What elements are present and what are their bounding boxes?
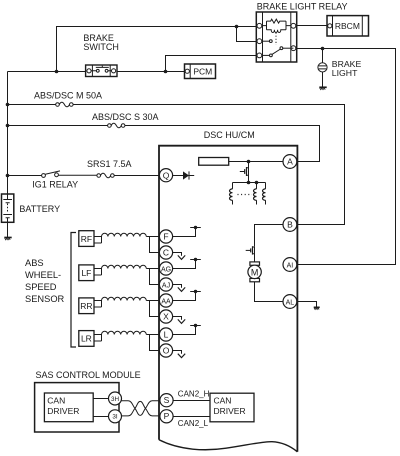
fuse SRS1 7.5A [97, 173, 114, 178]
svg-text:AJ: AJ [162, 282, 170, 289]
relay pin: right terminal 1 [291, 23, 296, 28]
svg-text:ABS: ABS [25, 258, 44, 268]
svg-text:SPEED: SPEED [25, 282, 57, 292]
svg-text:PCM: PCM [193, 66, 212, 76]
svg-text:C: C [163, 248, 169, 258]
motor M (ABS pump motor) [248, 262, 261, 282]
sensor LR (left rear wheel speed) [79, 331, 94, 347]
module SAS control module box [35, 383, 119, 432]
wire: LF twisted pair to AG and AJ [94, 265, 160, 284]
wire: AA internal tick [173, 290, 201, 301]
node: junction at MOSFET drain [247, 160, 251, 164]
module RBCM [327, 16, 369, 36]
node: junction bus / S30A fuse line [6, 124, 10, 128]
solenoid coil 2 [254, 183, 257, 205]
terminal P [160, 410, 173, 423]
node: junction to relay terminal 3 [164, 70, 168, 74]
svg-text:X: X [163, 312, 169, 322]
wire: CAN driver to 3I [93, 416, 109, 418]
wire: drop to brake light [322, 49, 324, 63]
module PCM [185, 64, 216, 79]
relay pin: left terminal 2 [257, 39, 262, 44]
wire: top feed from brake-switch junction up and right to relay terminal 1 [57, 27, 257, 72]
svg-text:L: L [164, 330, 169, 340]
svg-text:P: P [164, 411, 170, 421]
bracket: sensor group bracket [71, 233, 76, 348]
wire: O internal ground arrow [173, 351, 186, 358]
block: DSC CAN driver box [210, 393, 254, 422]
svg-text:CAN2_L: CAN2_L [178, 419, 209, 428]
wire: LR twisted pair to L and O [94, 331, 160, 350]
switch: brake switch [86, 65, 117, 77]
terminal AI [283, 258, 297, 272]
wire: SRS1 fuse to terminal Q [114, 175, 159, 177]
module DSC HU/CM box with torn bottom [159, 146, 297, 452]
svg-text:LIGHT: LIGHT [332, 68, 358, 78]
lamp: brake light bulb [318, 63, 327, 72]
fuse ABS/DSC S 30A [8, 123, 125, 128]
block: internal component rectangle [199, 158, 229, 166]
relay pin: left terminal 1 [257, 23, 262, 28]
wire: battery bus to brake switch [8, 71, 86, 73]
terminal AL [283, 295, 297, 309]
label: BRAKE SWITCH [83, 33, 119, 52]
terminal 3I [109, 410, 122, 423]
terminal O [159, 344, 172, 357]
svg-text:O: O [163, 346, 170, 356]
wire: AL to ground stub [297, 302, 317, 308]
wire: F internal tick [173, 226, 201, 237]
wire: drop from top feed to relay terminal 2 [237, 27, 257, 42]
wire: CAN twisted pair L [121, 401, 160, 416]
wire: brake light to ground [322, 72, 324, 87]
terminal AJ [159, 278, 172, 291]
terminal A [283, 155, 297, 169]
svg-text:DSC HU/CM: DSC HU/CM [204, 130, 255, 140]
svg-text:SRS1 7.5A: SRS1 7.5A [87, 159, 132, 169]
svg-text:3I: 3I [112, 413, 118, 420]
node: junction bus / M50A fuse line [6, 103, 10, 107]
svg-text:RF: RF [81, 234, 92, 244]
wire: L internal tick [173, 324, 201, 335]
solenoid coil 1 [230, 183, 233, 205]
svg-text:SAS CONTROL MODULE: SAS CONTROL MODULE [36, 370, 141, 380]
svg-text:AA: AA [161, 298, 171, 305]
node: coil junction right [255, 181, 259, 185]
wire: main battery bus vertical [7, 72, 9, 195]
transistor Q1 (valve driver MOSFET) [240, 162, 249, 183]
svg-text:Q: Q [163, 170, 170, 180]
wire: rectangle to terminal A [229, 161, 283, 163]
terminal C [159, 246, 172, 259]
wire: relay right terminal 1 to RBCM [297, 25, 327, 27]
svg-text:CAN: CAN [47, 395, 65, 405]
svg-text:RBCM: RBCM [335, 21, 360, 31]
node: junction bus / IG1 line [6, 174, 10, 178]
terminal F [159, 230, 172, 243]
ground: AL ground [314, 307, 320, 309]
wire: RF twisted pair to F and C [94, 233, 160, 252]
svg-text:BRAKE LIGHT RELAY: BRAKE LIGHT RELAY [257, 1, 348, 11]
sensor LF (left front wheel speed) [79, 265, 94, 281]
wire: P to internal CAN driver [173, 416, 210, 418]
wire: brake switch to PCM [117, 71, 185, 73]
wire: bus to IG1 relay contact [8, 175, 42, 177]
wire: RR twisted pair to AA and X [94, 297, 160, 316]
sensor RF (right front wheel speed) [79, 231, 94, 247]
wire: battery to ground [7, 222, 9, 237]
ground: brake light ground [319, 87, 326, 89]
relay coil and resistor in parallel [263, 19, 291, 32]
terminal 3H [109, 392, 122, 405]
switch: IG1 relay contact [42, 171, 60, 178]
wire: S to internal CAN driver [173, 400, 210, 402]
svg-text:BATTERY: BATTERY [19, 204, 60, 214]
wire: S30A line right and down to terminal A [125, 126, 320, 162]
sensor RR (right rear wheel speed) [79, 298, 94, 314]
svg-text:3H: 3H [111, 396, 120, 403]
label: BRAKE LIGHT (lamp) [332, 59, 362, 78]
wire: coil feed rail [233, 182, 266, 184]
ground: battery ground [4, 238, 11, 240]
terminal L [159, 328, 172, 341]
wire: motor to AL [255, 282, 284, 302]
wire: junction up and right to relay terminal 3 [166, 56, 257, 72]
terminal X [159, 310, 172, 323]
fuse ABS/DSC M 50A [8, 102, 74, 107]
svg-text:DRIVER: DRIVER [214, 406, 246, 416]
svg-text:CAN: CAN [214, 396, 232, 406]
relay switch contacts [262, 40, 294, 57]
battery B1 [2, 194, 14, 222]
wire: IG1 to SRS1 fuse [58, 174, 96, 176]
svg-text:B: B [287, 220, 293, 230]
dashed link between coils [238, 194, 253, 196]
transistor Q2 (motor driver MOSFET) [246, 246, 255, 265]
node: junction on top feed at x236 [235, 25, 239, 29]
svg-text:LF: LF [81, 268, 91, 278]
relay K1: brake light relay box [256, 12, 296, 62]
wire: CAN driver to 3H [93, 398, 109, 400]
svg-text:WHEEL-: WHEEL- [25, 270, 61, 280]
wire: M50A line right and down to terminal B [73, 105, 344, 225]
svg-text:S: S [164, 395, 170, 405]
label: ABS WHEEL-SPEED SENSOR [25, 258, 65, 304]
node: brake light tap junction [321, 47, 325, 51]
wire: X internal ground arrow [173, 317, 186, 324]
svg-text:AG: AG [161, 266, 171, 273]
svg-text:AL: AL [286, 300, 295, 307]
terminal AG [159, 262, 172, 275]
relay pin: left terminal 3 [257, 53, 262, 58]
wire: CAN twisted pair H [121, 401, 160, 416]
svg-text:SWITCH: SWITCH [83, 42, 119, 52]
relay pin: right terminal 2 [291, 46, 296, 51]
svg-text:AI: AI [287, 263, 294, 270]
terminal S [160, 394, 173, 407]
svg-text:ABS/DSC M 50A: ABS/DSC M 50A [34, 91, 102, 101]
svg-text:CAN2_H: CAN2_H [178, 389, 210, 398]
svg-text:LR: LR [81, 334, 92, 344]
solenoid coil 3 [263, 183, 266, 205]
terminal Q [159, 169, 172, 182]
svg-text:RR: RR [80, 301, 92, 311]
svg-text:F: F [163, 232, 168, 242]
wire: relay output to far-right vertical and down to terminal AI [297, 49, 396, 265]
node: junction on brake switch line at x57 [55, 70, 59, 74]
svg-text:ABS/DSC S 30A: ABS/DSC S 30A [92, 112, 159, 122]
diode D1 after terminal Q [173, 171, 195, 179]
relay: dashed actuator link [275, 33, 277, 46]
terminal AA [159, 294, 172, 307]
svg-text:IG1 RELAY: IG1 RELAY [32, 179, 78, 189]
block: SAS CAN driver box [44, 393, 93, 422]
svg-text:M: M [251, 267, 259, 277]
wire: AJ internal ground arrow [173, 285, 186, 292]
terminal B [283, 218, 297, 232]
svg-text:DRIVER: DRIVER [47, 406, 79, 416]
svg-text:A: A [287, 157, 293, 167]
wire: C internal ground arrow [173, 253, 186, 260]
node: coil junction left [247, 181, 251, 185]
wire: AG internal tick [173, 258, 201, 269]
wire: B to motor branch [255, 225, 284, 247]
svg-text:SENSOR: SENSOR [25, 294, 65, 304]
